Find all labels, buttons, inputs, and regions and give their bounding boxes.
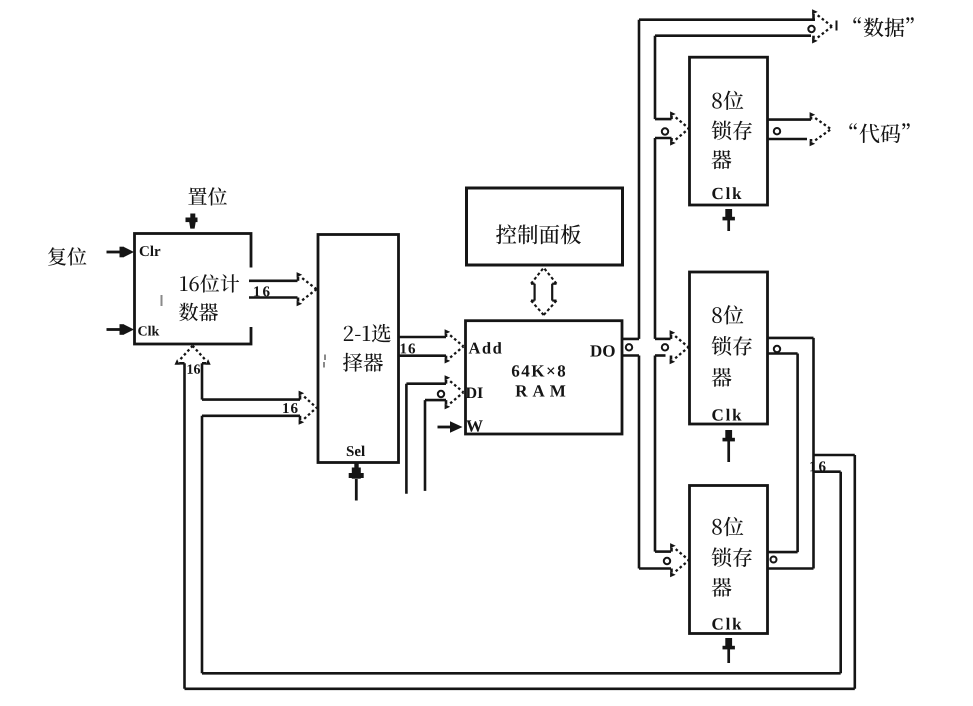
pin label Clk (counter bottom-left) (138, 326, 159, 336)
wire: selector input 2 lower line (202, 414, 300, 417)
wire: code output bus top line (768, 118, 812, 121)
junction circle at bottom latch input (664, 558, 670, 564)
wire: selector to RAM address bus top line (399, 336, 447, 339)
bus width label 16 (feedback to selector) (283, 403, 297, 413)
wire: inner bottom feedback line (202, 672, 841, 675)
block: top 8-bit latch box (690, 57, 768, 205)
block: middle 8-bit latch box (690, 272, 768, 424)
label: 控制面板 (control panel) (496, 224, 581, 244)
label: 器 (top latch line 3) (712, 150, 732, 169)
open arrowhead into selector input 1 (297, 277, 300, 281)
open arrowhead of code output (810, 117, 813, 120)
clock input arrow below top latch (725, 209, 732, 219)
reset input arrow into Clr (107, 251, 122, 254)
label: 锁存 (middle latch line 2) (712, 336, 752, 356)
wire: DI bus top line (406, 382, 446, 385)
pin label Clr (counter top-left) (140, 246, 161, 257)
junction circle at middle latch input (662, 344, 668, 350)
wire: bottom latch output lower line (768, 567, 814, 570)
wire: channel vertical bus line 1 (x=639) lower segment (638, 356, 641, 569)
pin label Add (469, 342, 502, 354)
open arrowhead up into counter bottom (179, 362, 184, 365)
wire: data output bus top line (639, 18, 815, 21)
bus width label 16 (selector to RAM) (401, 344, 415, 354)
wire: jog to outer feedback (upper, y=455) (814, 454, 855, 457)
set input arrow (down, into counter top) (190, 214, 195, 223)
wire: DI bus bottom line (425, 399, 446, 402)
wire: middle latch input lower line (655, 354, 666, 357)
bus width label 16 (counter to selector) (254, 286, 269, 296)
pin label DI (466, 388, 483, 399)
label: 择器 (selector line 2) (343, 353, 383, 372)
scan artifact tick inside counter (161, 295, 163, 306)
wire: bottom latch output upper line (768, 551, 798, 554)
pin label W (466, 420, 483, 431)
wire: vertical link x=813.5 (812, 338, 815, 569)
bidirectional hollow arrow between control panel and RAM (533, 284, 535, 301)
wire: counter to selector bus bottom line (249, 296, 298, 299)
bus width label 16 (latch outputs to feedback) (810, 461, 825, 471)
pin label Clk (middle latch) (712, 409, 741, 421)
junction circle at DO output (626, 344, 632, 350)
label bg of counter text overlapping right edge (177, 268, 255, 328)
wire: bottom latch input lower line (639, 567, 671, 570)
junction circle at top latch input (662, 128, 668, 134)
wire: channel vertical bus line 2 (x=655) segment a (654, 36, 657, 119)
open arrowhead of data output (812, 14, 815, 20)
wire: channel vertical bus line 1 (x=639) upper segment (638, 20, 641, 339)
label: RAM (516, 385, 566, 396)
junction circle at bottom latch output (771, 557, 777, 563)
pin label DO (590, 345, 614, 357)
wire: middle latch output lower line (768, 352, 798, 355)
clock input arrow below bottom latch (725, 638, 732, 648)
select input arrow below selector (355, 479, 358, 501)
wire: left feedback vertical inner x=202 upper segment (201, 363, 204, 399)
junction circle on code output (774, 128, 780, 134)
wire: outer bottom feedback line (185, 687, 855, 690)
label: 64K×8 (512, 365, 565, 377)
scan artifact marks inside selector (324, 355, 326, 361)
wire: channel vertical bus line 2 (x=655) segment c (654, 356, 657, 552)
wire: middle latch output upper line (768, 337, 814, 340)
pin label Clk (top latch) (712, 187, 741, 199)
wire: left feedback vertical inner x=202 lower segment (201, 416, 204, 674)
wire: code output bus bottom line (768, 138, 808, 141)
label: 复位 (reset) (48, 247, 86, 265)
wire: channel vertical bus line 2 (x=655) segment b (654, 138, 657, 339)
wire: DO jog lower (RAM edge to bus line 1) (622, 354, 639, 357)
label: 8位 (middle latch line 1) (712, 305, 743, 324)
label: 8位 (bottom latch line 1) (712, 517, 743, 536)
wire: jog to inner feedback (lower, y=471.7) (814, 470, 841, 473)
open arrowhead into bottom latch (670, 548, 673, 552)
open arrowhead into RAM Add (445, 334, 448, 337)
label: 器 (bottom latch line 3) (712, 578, 732, 597)
clock input arrow into Clk (107, 328, 122, 331)
wire: left feedback vertical outer x=184.5 (183, 363, 186, 689)
open arrowhead into top latch (670, 116, 673, 119)
wire: selector input 2 upper line (202, 398, 300, 401)
label: 数器 (line 2 of counter) (179, 303, 218, 322)
block: bottom 8-bit latch box (690, 486, 768, 634)
wire: vertical link x=797.6 (mid latch out to bottom latch out) (796, 354, 799, 553)
bus width label 16 (feedback into counter) (188, 364, 201, 373)
label: “数据” (data) (853, 17, 913, 37)
label: 置位 (set) (188, 187, 227, 205)
wire: top latch input upper line (655, 118, 672, 121)
pin label Sel (selector bottom) (347, 446, 365, 457)
junction circle on DI bus (438, 391, 444, 397)
wire: counter to selector bus top line (249, 279, 298, 282)
junction circle at middle latch output (774, 346, 780, 352)
label: 2-1选 (selector line 1) (344, 324, 391, 343)
write enable arrow into RAM W (438, 426, 451, 429)
block: 16-bit counter box (135, 234, 252, 345)
label: 16位计 (line 1 of counter) (180, 274, 239, 292)
wire: DI bus left vertical (dangling) (405, 384, 408, 494)
wire: inner feedback vertical x=840.7 (839, 472, 842, 674)
wire: top latch input lower line (655, 137, 672, 140)
open arrowhead into middle latch (670, 335, 673, 339)
wire: data output bus bottom line (655, 34, 811, 37)
pin label Clk (bottom latch) (712, 618, 741, 630)
scan artifact tick after data arrow (836, 21, 838, 31)
wire: bottom latch input upper line (655, 550, 671, 553)
wire: outer feedback vertical x=854.8 (853, 455, 856, 689)
label: “代码” (code) (849, 123, 909, 143)
open arrowhead into selector input 2 (299, 395, 302, 399)
label: 锁存 (top latch line 2) (712, 121, 752, 141)
block: 2-1 selector box (318, 235, 399, 463)
junction circle on data output (808, 26, 814, 32)
wire: middle latch input upper line (655, 338, 671, 341)
wire: selector to RAM address bus bottom line (399, 354, 447, 357)
wire: DO jog upper (RAM edge to bus line 1) (622, 338, 639, 341)
clock input arrow below middle latch (725, 430, 732, 440)
label: 8位 (top latch line 1) (712, 91, 743, 110)
label: 器 (middle latch line 3) (712, 368, 732, 387)
block: control panel box (467, 188, 623, 265)
label: 锁存 (bottom latch line 2) (712, 547, 752, 567)
wire: DI bus right vertical (dangling) (424, 400, 427, 491)
block: 64Kx8 RAM box (466, 321, 623, 434)
open arrowhead into RAM DI (445, 380, 448, 384)
